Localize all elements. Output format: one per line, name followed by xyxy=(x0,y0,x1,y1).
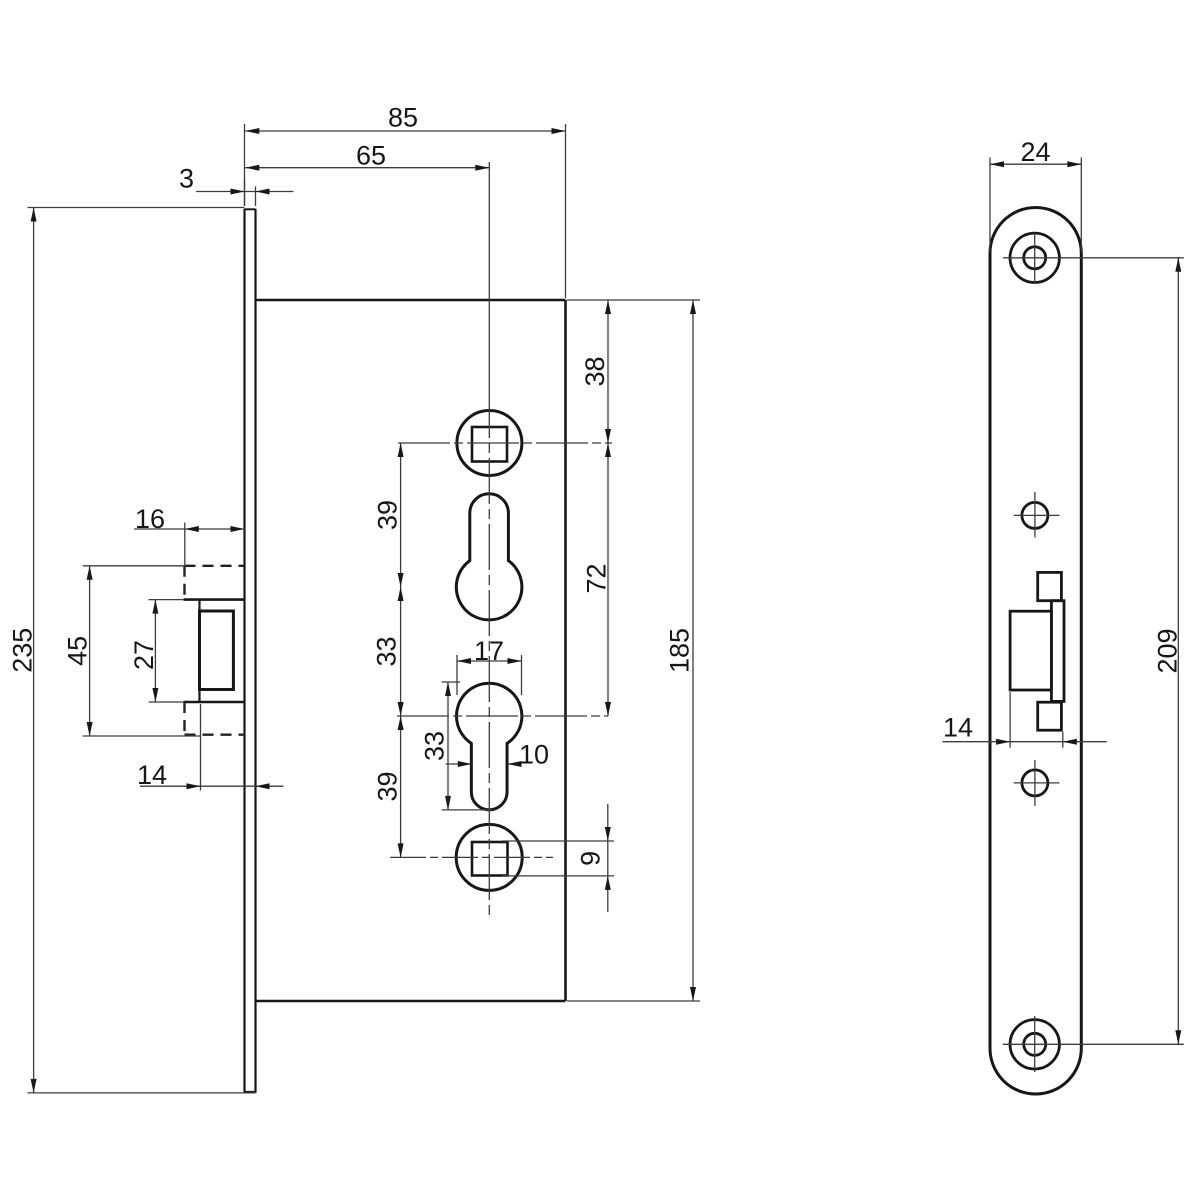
dimension 85 (case depth) xyxy=(245,103,566,299)
latch cutout tall rib xyxy=(1051,601,1064,702)
dimension 10 (keyhole neck width) xyxy=(446,740,550,770)
top screw hole inner xyxy=(1024,247,1046,269)
dimension 209 (screw centres) xyxy=(1152,258,1182,1045)
latch cutout bottom square xyxy=(1038,702,1062,730)
svg-text:38: 38 xyxy=(580,356,610,386)
svg-text:10: 10 xyxy=(519,740,549,770)
dimension 39 (upper) xyxy=(373,443,404,587)
latch bolt bevel face xyxy=(200,611,234,690)
striking plate outline (rounded ends) xyxy=(990,208,1081,1095)
lower keyhole horizontal centreline xyxy=(397,715,608,717)
chained dimension 39-33-39 line xyxy=(400,443,402,857)
dimension 235 (faceplate height) xyxy=(8,208,256,1093)
follower hub (bottom spindle circle) xyxy=(456,824,522,890)
dimension 24 (plate width) xyxy=(990,137,1081,252)
dimension 17 (cylinder diameter) xyxy=(457,636,522,695)
svg-text:33: 33 xyxy=(372,636,402,666)
bottom screw hole outer xyxy=(1010,1020,1059,1069)
dimension 72 (spindle to cylinder) xyxy=(582,443,612,716)
latch cutout main opening xyxy=(1010,611,1051,690)
vertical centreline xyxy=(488,162,490,920)
svg-text:235: 235 xyxy=(8,628,38,673)
bottom spindle horizontal centreline xyxy=(390,856,553,858)
top screw hole outer xyxy=(1010,233,1059,282)
svg-text:17: 17 xyxy=(474,636,504,666)
dimension 38 (top edge to spindle) xyxy=(580,300,611,443)
dimension 14 (cutout width) xyxy=(943,692,1107,748)
bottom screw hole inner xyxy=(1024,1033,1046,1055)
dimension 9 (square spindle size) xyxy=(502,804,614,912)
svg-text:209: 209 xyxy=(1152,628,1182,673)
faceplate (left view, edge-on) xyxy=(245,209,256,1093)
svg-text:14: 14 xyxy=(943,713,973,743)
dimension 65 (backset) xyxy=(245,141,489,171)
lower small hole crosshair xyxy=(1014,760,1060,806)
svg-text:3: 3 xyxy=(179,164,194,194)
top screw hole crosshair xyxy=(1003,233,1184,284)
bottom spindle square hole xyxy=(472,842,508,876)
svg-text:65: 65 xyxy=(356,141,386,171)
bottom screw hole crosshair xyxy=(1003,1016,1184,1072)
dimension 39 (lower) xyxy=(373,716,404,857)
dimension 16 (latch protrusion) xyxy=(134,504,245,566)
lower small hole xyxy=(1022,770,1048,796)
dimension 45 (latch cutout height) xyxy=(63,566,201,736)
svg-text:24: 24 xyxy=(1020,137,1050,167)
svg-text:39: 39 xyxy=(373,771,403,801)
dimension 3 (faceplate thickness) xyxy=(179,164,294,207)
dimension 14 (latch depth) xyxy=(137,704,284,791)
upper cylinder keyhole cutout xyxy=(456,494,522,620)
svg-text:27: 27 xyxy=(129,640,159,670)
lock case body xyxy=(256,300,566,1001)
upper small hole crosshair xyxy=(1014,492,1060,538)
dimension 185 (case height) xyxy=(567,300,700,1001)
svg-text:14: 14 xyxy=(137,760,167,790)
top spindle square hole xyxy=(472,427,507,462)
svg-text:185: 185 xyxy=(665,628,695,673)
hidden latch outline (extended) xyxy=(185,566,245,735)
svg-text:45: 45 xyxy=(63,636,93,666)
lower cylinder keyhole cutout xyxy=(457,683,522,810)
svg-text:9: 9 xyxy=(576,851,606,866)
svg-text:85: 85 xyxy=(388,103,418,133)
svg-text:72: 72 xyxy=(582,563,612,593)
dimension 33 (middle) xyxy=(372,587,404,716)
svg-text:33: 33 xyxy=(420,731,450,761)
svg-text:16: 16 xyxy=(135,504,165,534)
dimension 27 (latch height) xyxy=(129,600,184,702)
latch bolt head xyxy=(184,600,245,702)
top spindle horizontal centreline xyxy=(398,442,612,444)
latch cutout top square xyxy=(1038,572,1062,600)
upper small hole xyxy=(1022,502,1048,528)
svg-text:39: 39 xyxy=(373,500,403,530)
follower hub (top spindle circle) xyxy=(457,411,522,476)
dimension 33 (keyhole height) xyxy=(420,682,493,810)
